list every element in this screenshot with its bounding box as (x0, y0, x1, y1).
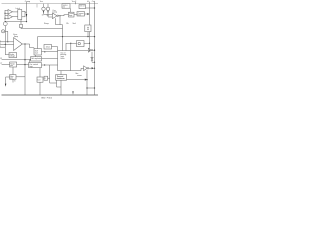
box C output wire right (16, 76, 25, 78)
box Z (zener) (85, 25, 91, 32)
svg-text:GND: GND (41, 97, 46, 99)
wire y21.6 (5, 21, 26, 23)
resistor bottom lead (20, 28, 22, 29)
wire y59.7 from left (2, 59, 31, 61)
svg-text:2: 2 (0, 43, 1, 45)
pin lead x75.5 (75, 2, 77, 4)
svg-text:Amp: Amp (14, 35, 18, 38)
junction (94.5,88) (94, 87, 95, 88)
left rail below I1 (5, 26, 9, 55)
junction (94.5,36.6) (94, 36, 95, 37)
box B down to C (12, 67, 14, 75)
svg-text:gen: gen (10, 65, 13, 67)
comparator branch down (56, 18, 63, 50)
caption under rail (41, 97, 52, 99)
junction (89.5,50.2) (89, 50, 90, 51)
gate G1 (88, 48, 91, 52)
comparator input rail x5 (4, 10, 6, 21)
bus y36.6 (38, 36, 95, 38)
box E verticals (39, 68, 41, 95)
wire G bottom to gate2 (71, 68, 84, 70)
svg-text:Vcc2: Vcc2 (72, 1, 77, 3)
svg-text:CT: CT (0, 63, 2, 65)
pin labels top (25, 0, 96, 3)
wire T2 to VC rail (86, 7, 95, 9)
arrow R2 to rail (85, 13, 88, 15)
latch box 2 (22, 11, 25, 16)
svg-text:5V ref: 5V ref (80, 5, 85, 8)
vertical x87 (86, 70, 88, 95)
drop x70.8 (70, 43, 72, 50)
wire U1 out (13, 11, 18, 13)
current source CS1 (43, 4, 45, 7)
box2 out (42, 58, 58, 60)
box1 out arrow wire (42, 51, 58, 53)
box D wire (48, 77, 50, 79)
svg-text:logic: logic (29, 66, 33, 68)
current source CS2 (47, 4, 49, 7)
ground marker wedge (72, 91, 73, 94)
junction (94.5,68.2) (94, 68, 95, 69)
box T1 top middle (62, 4, 70, 9)
current source I1 (3, 22, 7, 26)
box B out (17, 64, 29, 66)
wire S to R2 (74, 14, 77, 16)
comparator input stubs (5, 11, 8, 18)
flip-flop box (18, 10, 22, 20)
small labels (0, 7, 82, 83)
bus drop x37.5 (37, 37, 39, 49)
PWM comparator U4 (53, 13, 58, 19)
junction (94.5,62.2) (94, 62, 95, 63)
junction (94.5,8) (94, 7, 95, 8)
big box G (58, 51, 71, 71)
comparator output drop x60 (59, 16, 61, 25)
wire y88 (87, 87, 95, 89)
box V out wire (52, 47, 58, 51)
box T2 top right (79, 5, 86, 9)
box C (10, 75, 16, 80)
box C bottom stub (12, 79, 14, 82)
svg-text:Vc: Vc (87, 1, 89, 3)
box texts (10, 5, 85, 82)
junction (30.1,59.7) (30, 59, 31, 60)
comparator U1 (8, 10, 13, 15)
junction (62.5,36.6) (62, 36, 63, 37)
box Y with circle (77, 41, 85, 47)
error amp output wire (22, 44, 34, 49)
bus y28.7 (21, 28, 63, 30)
FF bottom stub (20, 20, 22, 25)
junction (70.8,43.2) (70, 43, 71, 44)
junction (87,79.6) (86, 79, 87, 80)
W out (42, 64, 58, 66)
junction (7.8,41.8) (7, 41, 8, 42)
svg-text:gen: gen (10, 78, 13, 80)
svg-text:limit: limit (78, 14, 82, 17)
H bottom to rail (60, 80, 62, 95)
gate G2 (84, 66, 88, 71)
junction (44.6,65) (44, 64, 45, 65)
H bottom jog (57, 80, 62, 87)
junction dots (4, 7, 95, 88)
box R2 (77, 12, 85, 16)
svg-text:1m: 1m (42, 14, 45, 16)
junction (94.5,50.2) (94, 50, 95, 51)
svg-text:PGnd: PGnd (47, 97, 52, 99)
junction (26.5,21.6) (26, 21, 27, 22)
comparator U2 (8, 15, 13, 20)
wide box W (29, 63, 42, 68)
svg-text:3: 3 (0, 46, 1, 48)
wire y50.2 to gate1 (71, 49, 89, 51)
svg-text:Ramp: Ramp (44, 23, 49, 25)
oscillator circle (1, 30, 4, 33)
svg-text:Vcc: Vcc (40, 1, 43, 3)
wire U2 out (13, 16, 18, 18)
svg-text:Clk: Clk (66, 23, 69, 25)
pin lead x26.5 (26, 2, 28, 22)
svg-text:Comp: Comp (25, 1, 31, 3)
svg-text:G: G (14, 80, 16, 82)
box A (9, 53, 17, 58)
VC rail x94.5 (94, 2, 96, 95)
left pin stub y47 (0, 46, 5, 48)
H out wire with arrow (67, 79, 85, 81)
wires into PWM comparator (44, 14, 53, 17)
error amp inverting input wire (0, 43, 14, 45)
box1 to box2 stub (35, 55, 37, 57)
svg-text:Out: Out (92, 0, 96, 3)
box E (37, 77, 43, 82)
svg-text:Comp: Comp (52, 12, 57, 14)
junction (5,18.2) (4, 18, 5, 19)
svg-text:Ref regulator: Ref regulator (31, 57, 41, 60)
Z bottom lead (87, 32, 89, 37)
pin arrow on x26.5 (26, 14, 27, 17)
G to H vertical (60, 71, 62, 75)
drop x66 (65, 43, 67, 50)
svg-text:sense: sense (77, 75, 82, 77)
diode D1 branch (91, 52, 93, 57)
top border line (2, 3, 99, 5)
wire FF to pin (25, 11, 27, 13)
error amp non-inv input wire (0, 41, 14, 43)
svg-text:shutdown: shutdown (57, 77, 65, 80)
svg-text:start: start (35, 51, 39, 54)
box B (10, 62, 17, 67)
junction (5.3,21.6) (5, 21, 6, 22)
T1 to S vertical (69, 8, 71, 12)
svg-text:voltage: voltage (10, 55, 16, 58)
VCC rail x89.5 (89, 2, 91, 50)
svg-text:logic: logic (69, 15, 73, 17)
box D (44, 76, 48, 80)
svg-text:Vref: Vref (73, 23, 77, 25)
box2 (31, 57, 42, 61)
box1 PWM (34, 49, 42, 55)
svg-text:block: block (61, 58, 65, 60)
striped box H (56, 75, 67, 81)
feedback vertical x25 (24, 44, 26, 95)
box C left wire down arrow (6, 77, 10, 84)
error amp U3 (14, 38, 23, 51)
junction (25,64.6) (24, 64, 25, 65)
junction (5.3,44.4) (5, 44, 6, 45)
box S (69, 12, 75, 17)
resistor R1 (20, 24, 23, 27)
svg-text:Latch: Latch (16, 7, 20, 10)
drop x29.6 (29, 60, 31, 63)
comparator output wire (58, 15, 68, 16)
junction (25,44) (24, 43, 25, 44)
bottom ground rail (2, 94, 99, 96)
wire y43.2 (66, 42, 90, 44)
pin lead x37 (36, 4, 38, 8)
osc lead (5, 31, 8, 42)
junction (87,88) (86, 87, 87, 88)
svg-text:5V: 5V (0, 58, 2, 60)
junction (60,15.8) (59, 15, 60, 16)
junction (25,59.7) (24, 59, 25, 60)
junction (89.5,43.2) (89, 43, 90, 44)
junction (5,13.2) (4, 13, 5, 14)
svg-text:1shot: 1shot (46, 46, 51, 49)
box V (44,44.5) (44, 45, 52, 50)
drop x49.6 (50, 65, 57, 83)
wire into box B (2, 64, 10, 66)
junction (88,36.6) (87, 36, 88, 37)
